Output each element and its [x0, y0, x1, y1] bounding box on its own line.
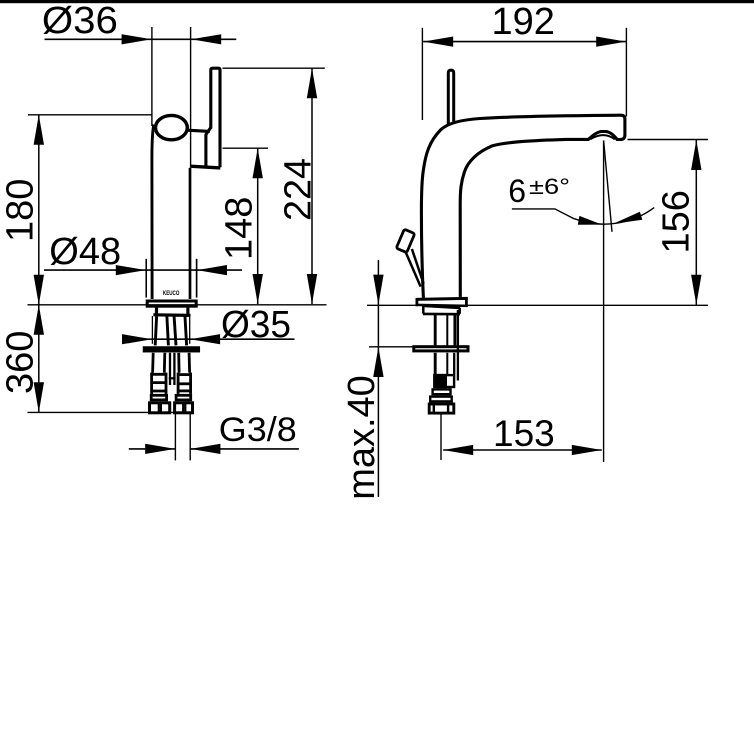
base cylinder right line: [196, 259, 198, 298]
side flange plate left edge: [415, 298, 418, 306]
192 arrow left: [423, 37, 453, 47]
tier2 right edge: [186, 308, 189, 315]
dim 153 line: [443, 449, 602, 451]
mounting plane line left: [28, 304, 327, 306]
threaded section outline: [434, 375, 454, 387]
360 arrow top: [34, 305, 44, 335]
left hose ladder right rail: [165, 373, 168, 394]
156 ext top: [628, 139, 709, 141]
svg-text:360: 360: [0, 331, 42, 394]
hose upper line 4: [185, 316, 187, 345]
top border: [0, 0, 754, 3]
side paddle (tilted handle): [396, 229, 415, 252]
right nut facet line 1: [182, 403, 184, 413]
right hose ladder left rail: [177, 373, 180, 394]
192 ext right: [625, 28, 627, 117]
dim Ø35 line: [123, 338, 295, 340]
side washer: [414, 347, 468, 351]
washer plate front: [144, 348, 198, 351]
Ø36 ext line right: [190, 27, 192, 167]
svg-text:Ø36: Ø36: [42, 0, 118, 42]
paddle stem lower edge: [406, 252, 421, 286]
nut (side): [429, 404, 454, 413]
156 arrow bottom: [691, 275, 701, 305]
body left edge: [152, 125, 154, 300]
stream axis vertical: [603, 141, 605, 463]
right hose lower outer edge: [188, 353, 191, 373]
threaded section dark: [435, 375, 446, 387]
Ø35 ext left: [151, 316, 153, 344]
angle arc arrow left: [578, 216, 602, 225]
tier2 bottom cap: [153, 313, 190, 317]
svg-text:Ø35: Ø35: [221, 304, 291, 346]
supply axis line: [440, 415, 442, 461]
left hose ladder rung 1: [150, 373, 167, 376]
148 arrow bottom: [253, 274, 263, 304]
180 arrow top: [34, 115, 44, 145]
side flange plate right edge: [465, 297, 468, 306]
paddle stem upper edge: [412, 249, 424, 284]
nut (side) facet line 2: [447, 404, 449, 413]
head ellipse: [156, 115, 188, 139]
left hose lower inner edge: [163, 353, 166, 373]
Ø35 arrow right: [190, 334, 220, 344]
escutcheon plate: [147, 301, 196, 306]
G3/8 ext left: [174, 414, 176, 461]
Ø35 arrow left: [122, 334, 152, 344]
threaded rod left edge: [169, 353, 171, 385]
right hose lower inner edge: [177, 353, 180, 373]
tier2 left edge: [155, 308, 158, 315]
Ø36 ext line left: [151, 27, 153, 126]
right hose ladder rung 2: [177, 382, 192, 385]
base cylinder left line: [145, 259, 147, 298]
side flange plate top edge: [416, 298, 468, 299]
shank tube lower right edge: [453, 353, 455, 374]
dim 192 line: [423, 41, 626, 43]
G3/8 arrow right: [190, 444, 220, 454]
dim 148 line: [257, 148, 259, 304]
max40 arrow upper: [373, 275, 383, 305]
148 arrow top: [253, 148, 263, 178]
Ø35 ext right: [189, 316, 191, 344]
Ø48 arrow left: [116, 265, 146, 275]
360 bottom ext line: [28, 411, 194, 413]
angle leader: [512, 209, 575, 219]
Ø48 arrow right: [197, 265, 227, 275]
lever paddle kink diagonal: [206, 127, 211, 134]
svg-text:max.40: max.40: [341, 375, 383, 500]
dim Ø36 line: [45, 38, 237, 40]
svg-text:6: 6: [508, 173, 526, 209]
neck right edge: [189, 168, 192, 299]
right hose ladder right rail: [189, 373, 192, 394]
angle arc arrow right: [613, 212, 642, 224]
180 arrow bottom: [34, 275, 44, 305]
hose upper line 2: [167, 316, 169, 345]
lever boss left edge: [204, 134, 207, 166]
left hose ladder left rail: [150, 373, 153, 394]
shank tube upper right edge: [453, 314, 456, 346]
left hose lower outer edge: [151, 353, 154, 373]
shank tube upper left edge: [434, 314, 437, 346]
hose upper line 1: [155, 316, 156, 345]
max40 arrow lower: [373, 347, 383, 377]
svg-text:Ø48: Ø48: [49, 231, 121, 273]
224 arrow bottom: [307, 274, 317, 304]
192 arrow right: [596, 37, 626, 47]
148 ext top: [223, 147, 269, 149]
right hose ladder rung 3: [177, 389, 192, 392]
153 arrow left: [443, 445, 473, 455]
spout outline: [421, 115, 625, 298]
156 arrow top: [691, 140, 701, 170]
side tier2 left edge: [422, 306, 425, 314]
lever bottom cap: [190, 166, 220, 168]
lever rod (side): [448, 70, 453, 125]
Ø48 ext right: [196, 259, 198, 298]
svg-text:192: 192: [492, 1, 555, 43]
side flange plate bottom edge: [416, 305, 468, 306]
left hose ladder rung 3: [150, 390, 167, 393]
step 1: [433, 389, 451, 394]
side tier2 right edge: [458, 308, 461, 314]
angle arc: [574, 208, 654, 225]
hose upper line 3: [174, 316, 176, 345]
right hose ladder rung 1: [177, 373, 192, 376]
shank tube lower inner line: [446, 353, 448, 374]
224 ext top: [223, 67, 325, 69]
dim 156 line: [695, 140, 697, 305]
shank tube upper inner line: [446, 314, 448, 346]
aerator inner line: [590, 135, 615, 139]
dim G3/8 line right: [190, 448, 299, 450]
svg-text:±6°: ±6°: [529, 174, 570, 199]
right nut facet line 2: [184, 403, 186, 413]
left nut facet line 2: [160, 403, 162, 413]
dim Ø48 line: [44, 269, 242, 271]
dim G3/8 line left: [129, 448, 175, 450]
threaded rod step: [169, 377, 176, 379]
svg-text:153: 153: [493, 413, 555, 454]
right fitting: [176, 395, 191, 400]
side tier2 bottom edge: [423, 313, 460, 316]
svg-text:224: 224: [278, 158, 320, 221]
lever connector top: [187, 130, 210, 131]
svg-text:KEUCO: KEUCO: [163, 290, 180, 297]
svg-text:156: 156: [655, 190, 697, 253]
max40 lower ext: [369, 346, 413, 348]
left fitting: [151, 395, 166, 400]
stream axis tilted 6deg: [604, 141, 612, 232]
360 arrow bottom: [34, 382, 44, 412]
180 ext line top: [28, 114, 153, 116]
shank tube lower left edge: [434, 353, 437, 374]
svg-text:180: 180: [0, 179, 42, 242]
dim max40 line: [377, 260, 379, 497]
threaded rod right edge: [173, 353, 175, 385]
lever paddle: [211, 68, 220, 167]
dim 180-360 line: [38, 115, 40, 413]
rear tube: [457, 310, 459, 381]
left nut facet line 1: [158, 403, 160, 413]
step 2: [430, 397, 452, 402]
svg-text:148: 148: [219, 197, 261, 260]
153 arrow right: [572, 445, 602, 455]
192 ext left: [421, 28, 423, 120]
Ø48 ext left: [145, 259, 147, 298]
224 arrow top: [307, 68, 317, 98]
right nut: [175, 403, 193, 413]
left nut: [150, 403, 170, 413]
G3/8 ext right: [189, 414, 191, 461]
G3/8 arrow left: [145, 444, 175, 454]
Ø36 arrow left: [122, 34, 152, 44]
svg-text:G3/8: G3/8: [219, 411, 297, 449]
Ø36 arrow right: [191, 34, 221, 44]
dim 224 line: [311, 68, 313, 304]
nut (side) facet line 1: [433, 404, 435, 413]
mounting plane line right: [367, 304, 708, 306]
side tier2 top band: [423, 306, 460, 308]
left hose ladder rung 2: [150, 381, 167, 384]
